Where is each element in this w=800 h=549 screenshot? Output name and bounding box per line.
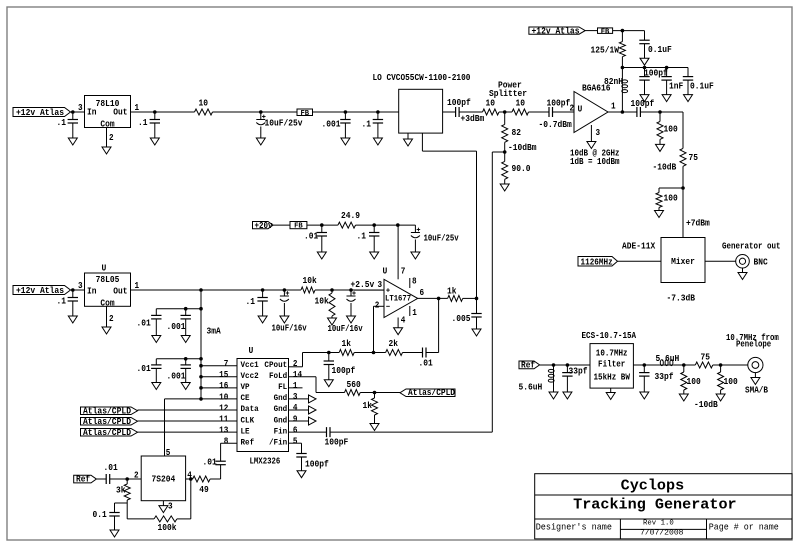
wire Ref to filter (540, 364, 590, 366)
wire CE to 7S204 pin5 (165, 397, 238, 456)
svg-text:Ref: Ref (76, 475, 90, 485)
svg-text:ADE-11X: ADE-11X (622, 242, 656, 252)
ground for 0.1 cap (110, 530, 119, 537)
svg-text:125/1W: 125/1W (591, 46, 620, 56)
svg-text:CE: CE (241, 394, 250, 403)
svg-text:Penelope: Penelope (736, 339, 771, 349)
ground for 10uF/25v (256, 138, 265, 145)
node op-amp output (437, 297, 441, 301)
node junction at C1 (71, 110, 75, 114)
label -7.3dB (667, 294, 696, 304)
label BNC (754, 257, 769, 267)
pin 4 label LT1677 (401, 315, 406, 325)
svg-text:100k: 100k (158, 523, 178, 533)
node op-amp supply feed (396, 223, 400, 227)
ground .01 row2 (152, 383, 161, 390)
label 1dB = 10dBm (570, 157, 620, 167)
title divider rev cell (620, 528, 706, 530)
wire tag to 78L05 (71, 289, 85, 291)
wire pin 4 to 49 (186, 478, 193, 480)
resistor 75 attenuator series (680, 148, 698, 166)
wire Ref pin to .01 cap (221, 443, 237, 461)
ground for 7S204 (159, 506, 168, 513)
ground +20v 10uF (411, 252, 420, 259)
capacitor 100pf amp output coupling (631, 99, 655, 117)
ground for 78L05 Com (102, 327, 111, 334)
label SMA/B (745, 386, 769, 396)
wire .01 to output riser (426, 298, 439, 352)
svg-text:1k: 1k (363, 401, 373, 411)
svg-text:U: U (102, 264, 107, 274)
ground for .001 cap (341, 138, 350, 145)
pin 7 label LT1677 (401, 267, 406, 277)
svg-text:-7.3dB: -7.3dB (667, 294, 696, 304)
label -10dB pad (694, 400, 718, 410)
pin 1 label 78L05 Out (135, 281, 140, 291)
svg-text:.001: .001 (167, 372, 186, 382)
wire Data (138, 409, 238, 411)
net Atlas/CPLD tag CLK (81, 417, 138, 427)
svg-text:0.1uF: 0.1uF (648, 45, 672, 55)
svg-text:5.6uH: 5.6uH (656, 354, 680, 364)
wire Fin riser (491, 152, 493, 432)
capacitor 100pF Fin coupling (325, 427, 349, 447)
wire Vcc2 (199, 375, 237, 379)
capacitor .01 ref series (104, 463, 118, 484)
pin 6 label LMX2326 Fin (293, 425, 298, 435)
wire 100k riser to pin 4 (190, 479, 192, 519)
svg-text:10.7MHz: 10.7MHz (596, 349, 628, 359)
resistor 100 attenuator shunt 2 (656, 188, 678, 208)
resistor 10 splitter right (512, 99, 529, 116)
svg-text:.001: .001 (322, 119, 341, 129)
label Power Splitter (489, 81, 527, 100)
svg-text:Gnd: Gnd (274, 393, 288, 403)
svg-text:3: 3 (168, 501, 173, 511)
wire BGA616 output (608, 111, 637, 113)
ground arrow Gnd pin 4 (289, 406, 317, 414)
capacitor .001 row2 (167, 359, 191, 383)
pin 1 label LMX2326 FL (293, 381, 298, 391)
pin 3 label 7S204 (168, 501, 173, 511)
ground for BNC shell (738, 268, 747, 279)
pin 12 label LMX2326 Data (219, 403, 228, 413)
svg-text:FoLd: FoLd (269, 371, 287, 381)
pin 16 label LMX2326 VP (219, 381, 228, 391)
svg-text:Page # or name: Page # or name (709, 522, 779, 532)
svg-text:2: 2 (134, 471, 139, 481)
ferrite bead FB (VCO supply) (297, 109, 313, 118)
label +3dBm (461, 114, 485, 124)
ground for 0.1uF (640, 58, 649, 65)
resistor 100 attenuator shunt 1 (657, 112, 678, 139)
node attenuator out (681, 186, 685, 190)
wire 5.6uH to pad (676, 364, 695, 366)
wire FB to supply node (613, 30, 645, 32)
svg-text:Atlas/CPLD: Atlas/CPLD (83, 406, 131, 416)
wire VCO ground pin (407, 133, 409, 139)
title text Tracking Generator (573, 496, 737, 513)
svg-text:Atlas/CPLD: Atlas/CPLD (408, 388, 455, 398)
filter FL1 10.7MHz (590, 344, 633, 389)
node loop filter mid (372, 351, 376, 355)
svg-text:78L05: 78L05 (96, 275, 120, 285)
capacitor .005 Vtune filter (452, 298, 482, 329)
ground for SMA shell (751, 373, 760, 385)
wire CPout riser (289, 353, 303, 367)
connector BNC Generator out (736, 254, 750, 268)
node pin 4 (189, 477, 193, 481)
svg-text:560: 560 (347, 380, 361, 390)
wire tap to Fin riser (492, 151, 504, 153)
svg-text:-10dB: -10dB (694, 400, 718, 410)
label U for 78L05 (102, 264, 107, 274)
capacitor 100pf loop filter (324, 353, 356, 380)
capacitor 0.1uF amp bypass 2 (683, 68, 714, 95)
wire 78L10 Out to R1 (131, 111, 195, 113)
svg-text:1k: 1k (342, 339, 352, 349)
net Ref input tag (filter) (519, 360, 540, 370)
IC U LMX2326 PLL (237, 359, 289, 452)
wire FL stub (289, 387, 303, 389)
svg-text:6: 6 (293, 425, 298, 435)
svg-text:82: 82 (512, 128, 522, 138)
svg-text:100pf: 100pf (305, 460, 329, 470)
ground for VCO (404, 139, 413, 146)
svg-text:.1: .1 (362, 119, 372, 129)
pin 3 label LT1677 (378, 280, 383, 290)
ground for divider (328, 316, 337, 325)
ground for VCO .1 cap (373, 138, 382, 145)
node at .1 cap (VCO) (376, 110, 380, 114)
svg-text:100pF: 100pF (325, 438, 349, 448)
inductor 5.6uH series (633, 354, 679, 366)
capacitor .1 at 78L05 input (57, 290, 79, 316)
label Generator out (722, 242, 781, 252)
title text Rev 1.0 (643, 519, 674, 527)
ground +20v .1 (370, 252, 379, 259)
pin 8 label LMX2326 Ref (224, 437, 229, 447)
resistor 24.9 (338, 211, 360, 228)
svg-text:LMX2326: LMX2326 (250, 457, 281, 467)
wire 1k to Vtune node (463, 297, 477, 299)
svg-text:1126MHz: 1126MHz (581, 257, 613, 267)
svg-text:0.1uF: 0.1uF (690, 82, 714, 92)
pin 7 label LMX2326 Vcc1 (224, 359, 229, 369)
wire FB to .01 node (307, 224, 338, 226)
wire decoupling row 1 (156, 307, 203, 311)
svg-text:Com: Com (100, 120, 114, 130)
svg-text:9: 9 (293, 414, 298, 424)
resistor 1k lock detect pulldown (363, 393, 378, 416)
capacitor 10uF/25v electrolytic (256, 112, 303, 138)
svg-text:4: 4 (293, 403, 298, 413)
svg-text:Rev 1.0: Rev 1.0 (643, 519, 674, 527)
mixer U ADE-11X (661, 238, 705, 283)
title text 7/07/2008 (640, 529, 684, 537)
svg-text:7S204: 7S204 (152, 475, 176, 485)
capacitor .01 row2 (137, 359, 162, 383)
wire mixer to BNC (705, 260, 736, 262)
svg-text:10k: 10k (315, 297, 330, 307)
wire /Fin stub (289, 443, 302, 453)
svg-text:1: 1 (611, 102, 616, 112)
node 5V rail top (199, 288, 203, 292)
capacitor .01 row1 (137, 309, 162, 336)
svg-text:10: 10 (486, 99, 496, 109)
ground for amp 100pf (640, 95, 649, 102)
net +12v Atlas tag (amp supply) (529, 26, 585, 36)
svg-text:2: 2 (109, 133, 114, 143)
ground for input 33pf (563, 392, 572, 399)
net +20v tag (253, 221, 274, 231)
wire BGA616 pin 3 ground (591, 125, 600, 142)
node pad output (719, 363, 723, 367)
capacitor .1 on 5V (246, 290, 268, 316)
pin 2 label 7S204 (134, 471, 139, 481)
svg-text:VP: VP (241, 383, 250, 392)
svg-text:Splitter: Splitter (489, 89, 527, 99)
svg-text:/Fin: /Fin (269, 437, 287, 447)
svg-text:Out: Out (113, 287, 127, 297)
svg-text:.01: .01 (203, 458, 217, 468)
svg-text:100: 100 (664, 194, 678, 204)
ground .01 row1 (152, 336, 161, 343)
wire to amp coupling cap (529, 111, 550, 113)
capacitor .1 at 78L10 output (138, 112, 160, 138)
label Penelope (736, 339, 771, 349)
svg-text:100: 100 (724, 377, 738, 387)
ground arrow Gnd pin 9 (289, 417, 317, 425)
svg-text:Vcc2: Vcc2 (241, 372, 259, 381)
svg-text:.01: .01 (137, 319, 151, 329)
svg-text:10k: 10k (303, 276, 318, 286)
svg-text:BGA616: BGA616 (582, 84, 611, 94)
wire filter ground stub (610, 388, 612, 392)
label -10dBm (508, 143, 537, 153)
capacitor 10uF/25v on +20v (411, 225, 459, 252)
svg-text:10uF/25v: 10uF/25v (265, 119, 304, 129)
svg-text:4: 4 (401, 315, 406, 325)
svg-text:10: 10 (516, 99, 526, 109)
resistor 75 pad series (695, 352, 713, 368)
net Atlas/CPLD tag Data (81, 406, 138, 416)
resistor 1k loop filter (339, 339, 354, 356)
svg-text:24.9: 24.9 (341, 211, 360, 221)
pin 1 label 78L10 Out (135, 103, 140, 113)
svg-text:75: 75 (701, 352, 711, 362)
svg-text:10: 10 (199, 99, 209, 109)
svg-text:2: 2 (293, 359, 298, 369)
node amp output (621, 110, 625, 114)
svg-text:.1: .1 (57, 118, 67, 128)
svg-text:U: U (383, 267, 388, 277)
svg-text:7/07/2008: 7/07/2008 (640, 529, 684, 537)
node at 5.6uH shunt (552, 363, 556, 367)
svg-text:.1: .1 (357, 231, 367, 241)
svg-text:FB: FB (294, 223, 303, 231)
svg-text:100pf: 100pf (631, 99, 655, 109)
svg-text:10uF/16v: 10uF/16v (328, 324, 364, 334)
pin 13 label LMX2326 LE (219, 426, 228, 436)
label U for LT1677 (383, 267, 388, 277)
capacitor 33pf filter input (562, 365, 587, 392)
wire attenuator corner (682, 112, 684, 148)
pin 4 label 7S204 (187, 471, 192, 481)
svg-text:13: 13 (219, 426, 228, 436)
svg-text:0.1: 0.1 (93, 510, 107, 520)
wire op-amp output (418, 297, 448, 299)
net +12v Atlas input tag (top left) (13, 108, 71, 118)
wire CPout row to 1k (303, 352, 340, 354)
ground for input .1 cap (68, 138, 77, 145)
svg-text:3mA: 3mA (207, 327, 222, 337)
node 1nF bypass (665, 66, 669, 70)
node lock detect (373, 391, 377, 395)
node at 10uF/16v (283, 288, 287, 292)
svg-text:.01: .01 (419, 358, 433, 368)
label 10dB @ 2GHz (570, 149, 620, 159)
ground lock detect (370, 415, 379, 431)
svg-text:Gnd: Gnd (274, 404, 288, 414)
wire node to shunt 2 (659, 187, 683, 189)
ground for shunt 2 (655, 208, 664, 218)
resistor 10 splitter left (483, 99, 500, 116)
wire FB to VCO (313, 111, 400, 113)
ferrite bead FB (+20v) (290, 222, 307, 231)
svg-text:10uF/25v: 10uF/25v (424, 234, 460, 244)
wire Ref tag to cap (96, 478, 106, 480)
capacitor .01 loop filter (419, 348, 433, 369)
ground for .005 (472, 329, 481, 336)
wire Vcc1 (199, 364, 237, 368)
oscillator 7S204 (141, 456, 185, 501)
svg-text:5.6uH: 5.6uH (519, 383, 543, 393)
wire CLK (138, 420, 238, 422)
pin 11 label LMX2326 CLK (219, 414, 228, 424)
svg-text:.1: .1 (57, 297, 67, 307)
svg-text:2k: 2k (389, 339, 399, 349)
wire Fin cap to riser (330, 431, 492, 433)
resistor 90.0 termination (502, 152, 531, 179)
pin 3 label 78L05 (78, 281, 83, 291)
ground for filter case (606, 393, 615, 400)
wire +20v to op-amp pin 7 (397, 225, 399, 279)
svg-text:100pf: 100pf (332, 366, 356, 376)
wire tag to FB (585, 30, 597, 32)
node amp supply (621, 29, 625, 33)
svg-text:Atlas/CPLD: Atlas/CPLD (83, 428, 131, 438)
svg-text:1nF: 1nF (669, 82, 683, 92)
pin 6 label LT1677 (420, 288, 425, 298)
svg-text:8: 8 (224, 437, 229, 447)
pin 2 label LT1677 (375, 300, 380, 310)
svg-text:.001: .001 (167, 322, 186, 332)
svg-text:10uF/16v: 10uF/16v (272, 324, 308, 334)
pin 4 label LMX2326 Gnd (293, 403, 298, 413)
svg-text:-10dBm: -10dBm (508, 143, 537, 153)
pin 9 label LMX2326 Gnd (293, 414, 298, 424)
svg-text:3: 3 (596, 128, 601, 138)
wire 2k to .01 cap (403, 352, 423, 354)
svg-text:BNC: BNC (754, 257, 769, 267)
svg-text:75: 75 (689, 153, 699, 163)
ground for 10uF/16v (280, 316, 289, 323)
capacitor .001 (VCO supply) (322, 112, 351, 138)
inductor 5.6uH shunt (519, 365, 555, 393)
ground +20v .01 (317, 252, 326, 259)
svg-text:Out: Out (113, 108, 127, 118)
wire Fin to coupling cap (289, 431, 327, 433)
resistor 10 (supply filter) (195, 99, 213, 116)
ground .001 row1 (181, 336, 190, 343)
wire 10k to +2.5v node (315, 289, 384, 291)
resistor 100 pad shunt 1 (681, 365, 701, 390)
resistor 560 lock detect (345, 380, 361, 396)
pin 3 label 78L10 In (78, 103, 83, 113)
wire cap to 3k node (110, 478, 142, 480)
wire filter out (633, 364, 659, 366)
node +20v .1 (372, 223, 376, 227)
ground for 90.0 (500, 184, 509, 191)
resistor 1k op-amp output (447, 286, 463, 301)
svg-text:Data: Data (241, 405, 259, 414)
capacitor 33pf filter output (639, 365, 673, 392)
net Atlas/CPLD tag lock detect (400, 388, 455, 398)
ground for 78L05 input cap (68, 316, 77, 323)
svg-text:Filter: Filter (598, 359, 625, 369)
capacitor 100pf VCO output coupling (447, 98, 471, 117)
node amp feed (621, 66, 625, 70)
wire VCO output (443, 111, 456, 113)
net Atlas/CPLD tag LE (81, 428, 138, 438)
wire FoLd stub (289, 377, 345, 393)
svg-text:Mixer: Mixer (671, 257, 695, 267)
ferrite bead FB (amp supply) (598, 28, 613, 36)
ground pad shunt 1 (679, 390, 688, 401)
svg-text:In: In (87, 108, 97, 118)
svg-text:1dB = 10dBm: 1dB = 10dBm (570, 157, 620, 167)
resistor 10k divider bottom (315, 290, 336, 316)
node pad input (682, 363, 686, 367)
net +12v Atlas tag (PLL supply) (13, 286, 71, 296)
svg-text:+12v Atlas: +12v Atlas (532, 26, 580, 36)
node Fin tap (503, 150, 507, 154)
svg-text:2: 2 (570, 103, 575, 113)
node Vtune (475, 297, 479, 301)
svg-text:11: 11 (219, 414, 228, 424)
svg-text:Fin: Fin (274, 426, 288, 436)
svg-text:In: In (87, 287, 97, 297)
wire +20v to FB (273, 224, 290, 226)
wire 49 to Ref riser (210, 478, 221, 480)
wire decoupling row 2 (156, 357, 203, 361)
svg-text:.01: .01 (304, 232, 318, 242)
svg-text:Generator out: Generator out (722, 242, 781, 252)
svg-text:.01: .01 (104, 463, 118, 473)
capacitor .1 (VCO supply) (362, 112, 384, 138)
wire splitter node (499, 111, 512, 113)
capacitor 0.1uF amp supply (639, 31, 672, 59)
wire 78L05 Com to ground (106, 306, 108, 327)
wire to splitter R (459, 111, 482, 113)
label +2.5v (351, 280, 375, 290)
ground loop filter cap (324, 380, 333, 387)
inductor 82nH choke (604, 68, 628, 113)
svg-text:+12v Atlas: +12v Atlas (16, 108, 64, 118)
ground for LT1677 (394, 328, 403, 335)
svg-text:+12v Atlas: +12v Atlas (16, 286, 64, 296)
